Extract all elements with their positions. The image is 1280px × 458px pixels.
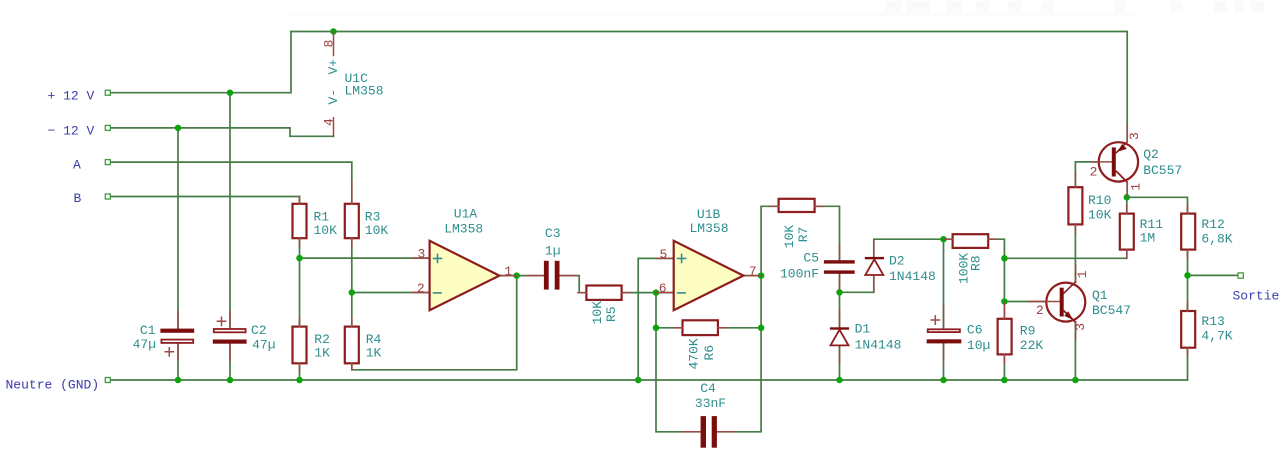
wire Q1 emitter to GND: [1074, 322, 1076, 380]
node +12V input pin: [105, 90, 110, 95]
svg-text:2: 2: [1036, 303, 1044, 318]
svg-text:470K: 470K: [687, 338, 702, 369]
capacitor C6: [927, 305, 991, 360]
wire R1 to R2: [299, 238, 301, 326]
wire node to pin2 U1A: [352, 292, 430, 294]
wire R11 pins: [1126, 205, 1128, 214]
svg-text:V-: V-: [326, 89, 341, 105]
wire C3 to R5: [560, 276, 587, 293]
diode D1: [830, 310, 902, 363]
svg-text:4: 4: [321, 118, 336, 126]
wire R5 pins: [578, 292, 586, 294]
wire C2 to GND: [229, 344, 231, 380]
svg-text:R6: R6: [702, 345, 717, 361]
junction Q2 collector node: [1124, 194, 1131, 201]
wire pin6 node down to C4 left: [656, 293, 701, 432]
svg-text:R10: R10: [1088, 193, 1111, 208]
wire node down to C6: [943, 239, 945, 329]
svg-text:7: 7: [749, 264, 757, 279]
svg-text:R2: R2: [314, 332, 330, 347]
svg-text:33nF: 33nF: [695, 396, 726, 411]
svg-text:Q2: Q2: [1143, 147, 1159, 162]
wire R6 pins: [674, 327, 683, 329]
svg-text:U1A: U1A: [454, 207, 478, 222]
junction U1A output: [513, 272, 520, 279]
svg-text:3: 3: [418, 247, 426, 262]
node B input pin: [105, 194, 110, 199]
svg-text:1: 1: [1129, 183, 1144, 191]
wire U1A feedback: [352, 276, 517, 370]
wire Q2 collector node: [1126, 182, 1128, 197]
svg-text:8: 8: [321, 40, 336, 48]
svg-text:Sortie: Sortie: [1233, 289, 1280, 304]
node Neutre (GND) input pin: [105, 378, 110, 383]
resistor R2: [293, 327, 307, 364]
svg-text:2: 2: [417, 281, 425, 296]
wire D1 to GND: [839, 346, 841, 380]
resistor R1: [293, 204, 307, 238]
svg-text:4,7K: 4,7K: [1201, 329, 1232, 344]
svg-text:R4: R4: [366, 332, 382, 347]
wire C5 bottom to node: [839, 274, 841, 293]
junction GND Q1 emitter: [1072, 377, 1079, 384]
svg-text:R12: R12: [1201, 217, 1224, 232]
svg-text:47µ: 47µ: [133, 337, 156, 352]
svg-text:10K: 10K: [314, 223, 338, 238]
resistor R7: [779, 199, 815, 212]
wire R13 to GND: [1187, 348, 1189, 380]
svg-text:6: 6: [659, 281, 667, 296]
IO PINS AND LABELS: [6, 89, 1280, 393]
junction R6 right: [758, 325, 765, 332]
node -12V input pin: [105, 125, 110, 130]
wire R1 pins: [299, 197, 301, 204]
junction GND R9: [1001, 377, 1008, 384]
junction pin6 node: [653, 289, 660, 296]
svg-text:1µ: 1µ: [545, 244, 561, 259]
junction top bus / U1C pin8: [330, 28, 337, 35]
wire node to Q1 base: [1004, 301, 1046, 303]
wire top bus down to Q2 emitter: [1126, 32, 1128, 142]
op-amp power U1C: [321, 32, 383, 137]
svg-text:5: 5: [660, 247, 668, 262]
resistor pin stubs: [300, 172, 1188, 372]
resistor R9: [998, 319, 1012, 355]
svg-text:B: B: [74, 191, 82, 206]
node Sortie output pin: [1238, 273, 1243, 278]
wire R7 pins: [770, 205, 779, 207]
transistor Q2: [1090, 125, 1183, 198]
svg-text:100nF: 100nF: [780, 267, 819, 282]
wire top V+ bus: [291, 31, 1127, 33]
resistor R11: [1120, 214, 1134, 250]
svg-text:1K: 1K: [366, 346, 382, 361]
wire node to R12: [1127, 197, 1188, 213]
wire node to D2 anode: [840, 276, 874, 292]
junction R6 left: [653, 325, 660, 332]
capacitor C3: [527, 226, 577, 290]
svg-text:LM358: LM358: [444, 222, 483, 237]
junction GND pin5: [635, 377, 642, 384]
svg-text:10µ: 10µ: [967, 338, 990, 353]
wire U1B out node: [743, 275, 761, 277]
svg-text:C2: C2: [251, 323, 267, 338]
svg-text:22K: 22K: [1020, 338, 1044, 353]
svg-text:C3: C3: [545, 226, 561, 241]
wire R8 pins: [944, 238, 953, 240]
wire R10 to Q1 collector: [1074, 224, 1076, 282]
wire +12V rail: [111, 32, 292, 93]
wire node to pin3 U1A: [300, 257, 430, 259]
wire R7 to C5 top: [815, 206, 840, 260]
svg-text:Q1: Q1: [1092, 288, 1108, 303]
wire out7 down to C4 right: [717, 276, 761, 432]
wire node down to D1: [839, 292, 841, 327]
svg-text:C4: C4: [700, 381, 716, 396]
svg-text:10K: 10K: [1088, 207, 1112, 222]
wire GND rail: [111, 379, 1188, 381]
transistor Q1: [1028, 265, 1131, 341]
svg-text:C5: C5: [803, 250, 819, 265]
svg-text:1M: 1M: [1140, 231, 1156, 246]
svg-text:Neutre (GND): Neutre (GND): [6, 378, 100, 393]
wire -12V rail: [111, 128, 334, 136]
wire R12 pins: [1187, 205, 1189, 214]
svg-text:1N4148: 1N4148: [855, 337, 902, 352]
junction -12V / C1: [175, 125, 182, 131]
wire R8 right down to R9: [988, 239, 1004, 319]
capacitor C5: [780, 243, 855, 290]
svg-text:10K: 10K: [590, 301, 605, 325]
svg-text:3: 3: [1073, 323, 1088, 331]
svg-text:R7: R7: [796, 227, 811, 243]
svg-text:10K: 10K: [365, 223, 389, 238]
node A input pin: [105, 160, 110, 165]
junction R1-R2 / pin3: [296, 255, 303, 262]
junction GND C2: [227, 377, 234, 384]
junction Sortie node: [1184, 272, 1191, 279]
wire R3 to R4: [351, 238, 353, 326]
wire out7 up to R7: [761, 206, 779, 275]
junction +12V / C2: [227, 89, 234, 96]
op-amp U1A: [413, 207, 517, 311]
svg-text:R5: R5: [604, 306, 619, 322]
wire node to R11 bottom: [1004, 250, 1126, 259]
junction GND C6: [940, 377, 947, 384]
wire C1 branch from -12V: [177, 128, 179, 329]
resistor R13: [1181, 311, 1195, 348]
svg-text:D2: D2: [889, 254, 905, 269]
wire R9 to GND: [1003, 354, 1005, 380]
svg-text:C6: C6: [967, 323, 983, 338]
wire C2 branch from +12V: [229, 93, 231, 329]
junction R8/R11 node: [1001, 255, 1008, 262]
capacitor C1: [133, 311, 195, 360]
junction D2/R8/C6 node: [940, 236, 947, 243]
wire R4 pins: [351, 318, 353, 327]
resistor R3: [345, 204, 359, 238]
resistor R5: [586, 286, 621, 300]
wire R2 pins: [299, 318, 301, 327]
svg-text:LM358: LM358: [690, 221, 729, 236]
wire node to Sortie pin: [1188, 274, 1239, 276]
svg-text:47µ: 47µ: [252, 338, 275, 353]
junction U1B output: [758, 272, 765, 279]
svg-text:R9: R9: [1020, 324, 1036, 339]
svg-text:6,8K: 6,8K: [1201, 231, 1232, 246]
op-amp U1B: [657, 207, 761, 310]
svg-text:− 12 V: − 12 V: [48, 124, 95, 139]
svg-text:R13: R13: [1201, 314, 1224, 329]
wire R3 pins: [351, 181, 353, 204]
wire C6 to GND: [943, 343, 945, 380]
capacitor C2: [213, 311, 276, 360]
wire B to R1: [111, 197, 300, 205]
faint header ghost marks: [290, 1, 1264, 16]
junction GND R2: [296, 377, 303, 384]
svg-text:3: 3: [1127, 132, 1142, 140]
svg-text:1: 1: [504, 264, 512, 279]
resistor R12: [1181, 214, 1195, 250]
svg-text:D1: D1: [855, 322, 871, 337]
diode D2: [865, 239, 936, 292]
wire U1A out to C3: [499, 275, 544, 277]
capacitor C4: [684, 381, 734, 448]
wire node to R11 top: [1126, 197, 1128, 213]
junction GND C1: [175, 377, 182, 384]
wire R10 top to Q2 base: [1075, 162, 1111, 187]
junction R3-R4 / pin2: [349, 289, 356, 296]
junction C5/D1/D2 node: [836, 289, 843, 296]
wire R6 left: [656, 327, 683, 329]
resistor R6: [683, 320, 718, 335]
svg-text:1N4148: 1N4148: [889, 269, 936, 284]
wire R6 right: [718, 327, 761, 329]
wire D2 top to R8 node: [874, 239, 953, 257]
wire R5 to pin6 U1B: [622, 292, 674, 294]
resistor R10: [1068, 187, 1082, 224]
svg-text:1: 1: [1075, 270, 1090, 278]
svg-text:BC547: BC547: [1092, 303, 1131, 318]
svg-text:10K: 10K: [782, 225, 797, 249]
wire R2 to GND: [299, 363, 301, 380]
resistor R4: [345, 327, 359, 364]
svg-text:R8: R8: [968, 255, 983, 271]
junction Q1 base node: [1001, 298, 1008, 305]
svg-text:BC557: BC557: [1143, 163, 1182, 178]
wire R13 pins: [1187, 302, 1189, 311]
wire R12 to R13: [1187, 250, 1189, 311]
svg-text:LM358: LM358: [345, 84, 384, 99]
svg-text:2: 2: [1090, 165, 1098, 180]
wire C1 to GND: [177, 343, 179, 380]
junction GND D1: [836, 377, 843, 384]
svg-text:A: A: [73, 158, 81, 173]
svg-text:1K: 1K: [314, 346, 330, 361]
svg-text:+ 12 V: + 12 V: [48, 89, 95, 104]
svg-text:C1: C1: [140, 323, 156, 338]
wire R10 pins: [1074, 172, 1076, 187]
wire pin5 U1B to GND: [638, 258, 674, 380]
svg-text:V+: V+: [326, 59, 341, 75]
wire R9 pins: [1003, 303, 1005, 319]
resistor R8: [953, 234, 989, 248]
wire A to R3: [111, 162, 352, 204]
